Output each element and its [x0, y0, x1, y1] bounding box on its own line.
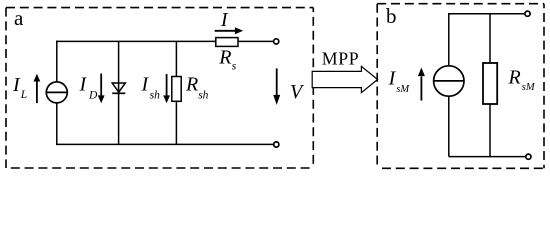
svg-text:I: I [220, 9, 229, 31]
resistor RsM [483, 63, 497, 104]
arrow: Ish direction (down) [163, 74, 170, 103]
resistor Rsh [172, 77, 181, 102]
wire: top rail of (a), left branch to Rs [56, 40, 216, 42]
label Ish [141, 74, 161, 102]
label Rsh value [185, 74, 209, 102]
wire: shunt branch upper (a) [175, 41, 177, 76]
svg-text:b: b [386, 4, 397, 28]
enclosure box a (dashed) [6, 8, 313, 168]
wire: left branch upper (a) [56, 41, 58, 83]
node: top output terminal of (a) [274, 39, 279, 44]
wire: left branch lower (a) [56, 103, 58, 145]
svg-text:sh: sh [198, 89, 208, 101]
arrow: IsM direction (up) [418, 68, 425, 101]
label IsM [388, 67, 411, 95]
wire: source branch lower (b) [448, 96, 450, 156]
node: top output terminal of (b) [525, 11, 530, 16]
svg-text:R: R [508, 67, 521, 89]
label RsM value [508, 67, 536, 94]
current source IsM symbol [434, 66, 464, 96]
wire: resistor branch lower (b) [489, 104, 491, 157]
enclosure box b (dashed) [377, 4, 544, 169]
svg-text:MPP: MPP [322, 49, 359, 69]
svg-text:I: I [388, 67, 397, 89]
diode D [112, 83, 125, 93]
node: bottom output terminal of (b) [526, 154, 531, 159]
wire: top rail of (b) [448, 13, 525, 15]
arrow: current I direction [215, 27, 244, 34]
svg-text:I: I [141, 74, 150, 96]
svg-text:R: R [185, 74, 198, 96]
svg-text:L: L [20, 89, 27, 101]
svg-text:R: R [218, 47, 231, 69]
wire: source branch upper (b) [448, 14, 450, 66]
svg-text:sM: sM [396, 84, 410, 95]
svg-text:sh: sh [150, 89, 160, 101]
wire: bottom rail of (b) [449, 156, 526, 158]
resistor Rs [216, 38, 238, 47]
node: bottom output terminal of (a) [274, 142, 279, 147]
current source (photocurrent) in (a) [46, 82, 67, 103]
label ID [79, 74, 99, 102]
wire: shunt branch lower (a) [175, 101, 177, 144]
label Rs value [218, 47, 237, 73]
arrow: MPP transformation (hollow block arrow) [312, 66, 377, 92]
svg-text:I: I [79, 74, 88, 96]
wire: resistor branch upper (b) [489, 14, 491, 63]
label IL [12, 74, 27, 101]
wire: top rail of (a), Rs to output terminal [238, 40, 273, 42]
wire: diode branch (a) [118, 41, 120, 144]
arrow: ID direction (down) [98, 74, 105, 104]
svg-text:sM: sM [522, 82, 536, 93]
arrow: output voltage V (down) [273, 68, 280, 105]
svg-text:I: I [12, 74, 21, 96]
svg-text:a: a [14, 6, 24, 30]
wire: bottom rail of (a) [56, 143, 273, 145]
arrow: IL direction (up) [34, 74, 41, 103]
svg-text:D: D [88, 90, 98, 102]
svg-text:s: s [232, 61, 237, 73]
